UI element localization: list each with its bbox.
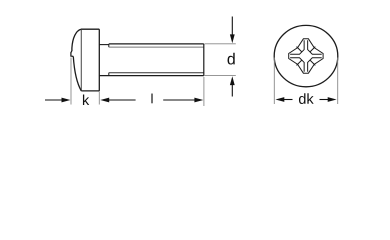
shank outer top line — [109, 43, 204, 45]
k/l shared arrow pointing left — [100, 98, 109, 103]
screw head dome lower arc — [73, 56, 81, 91]
screw head crown edge line — [80, 30, 82, 91]
dk label — [299, 93, 314, 104]
screw head right face — [98, 29, 100, 91]
shank end edge — [203, 44, 205, 76]
d dimension bottom extension line — [205, 75, 236, 77]
d label — [228, 53, 235, 65]
45 degree ticks — [297, 47, 316, 66]
shank neck top line — [99, 44, 109, 46]
d bottom arrow — [231, 85, 233, 97]
screw head side view: flat top — [81, 28, 99, 30]
l dimension line and right arrow — [163, 99, 195, 101]
k dimension right extension line — [98, 92, 100, 105]
slot walls and center octagon q4 — [290, 40, 304, 54]
slot walls and center octagon q2 — [308, 58, 322, 72]
thread start tick bottom — [108, 73, 110, 76]
recess notch on dome silhouette — [71, 51, 73, 56]
screw head bottom — [81, 90, 99, 92]
l label — [151, 94, 152, 104]
head front view circle — [274, 25, 338, 86]
shank outer bottom line — [99, 75, 204, 77]
pozidriv recess — [289, 39, 323, 73]
d dimension top extension line — [205, 43, 236, 45]
slot walls and center octagon q3 — [290, 58, 304, 72]
dk right arrow — [320, 99, 329, 101]
recess outline star — [289, 39, 323, 73]
dk left arrow — [275, 97, 284, 102]
thread root bottom line — [109, 72, 204, 74]
dk left extension line — [273, 58, 275, 105]
d top arrow — [231, 17, 233, 36]
thread root top line — [109, 46, 204, 48]
k dimension left arrow — [45, 99, 63, 101]
slot walls and center octagon q1 — [308, 40, 322, 54]
l right extension line — [203, 77, 205, 106]
k dimension left extension line — [70, 58, 72, 105]
dk right extension line — [337, 58, 339, 105]
k label — [83, 94, 89, 105]
thread start tick top — [108, 44, 110, 47]
screw head dome upper arc — [72, 29, 81, 51]
